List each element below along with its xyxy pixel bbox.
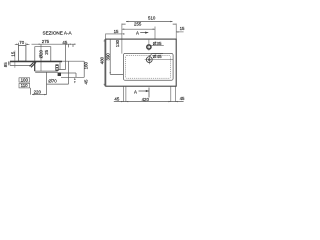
- svg-text:390: 390: [105, 53, 110, 61]
- bottom dim line: [114, 101, 184, 102]
- svg-text:Ø35: Ø35: [153, 41, 162, 46]
- dim 255 line: [122, 29, 155, 30]
- hidden inset rect: [125, 56, 170, 79]
- svg-text:45: 45: [83, 79, 88, 84]
- ext x30.6: [30, 88, 32, 95]
- svg-text:510: 510: [148, 15, 156, 20]
- below-deck verticals: [59, 44, 66, 69]
- tap hole circle: [147, 40, 151, 51]
- svg-text:110: 110: [21, 83, 29, 88]
- svg-text:480: 480: [100, 56, 105, 64]
- boxed dim 110: [19, 83, 30, 88]
- ext right x176.2: [175, 24, 177, 40]
- bottom ext lines: [123, 86, 175, 102]
- dim 390 line: [110, 39, 124, 74]
- ext tick x41: [40, 44, 42, 71]
- basin front wall: [34, 62, 36, 71]
- dim 15 right arrow: [176, 31, 183, 32]
- svg-text:220: 220: [34, 90, 42, 95]
- outer rect: [106, 39, 177, 86]
- apron bottom: [10, 64, 30, 66]
- ext tick x73: [72, 44, 74, 47]
- svg-text:45: 45: [180, 96, 185, 101]
- svg-text:100: 100: [21, 77, 29, 82]
- overflow box: [35, 47, 51, 62]
- svg-text:255: 255: [134, 21, 142, 26]
- svg-text:15: 15: [180, 26, 185, 31]
- svg-text:70: 70: [19, 40, 24, 45]
- inner rect: [123, 53, 173, 80]
- bottom line: [61, 76, 84, 78]
- svg-text:25: 25: [44, 49, 49, 54]
- svg-text:Ø20: Ø20: [38, 50, 43, 59]
- section A bottom: [134, 88, 149, 98]
- back edge: [83, 61, 85, 77]
- svg-text:15: 15: [114, 29, 119, 34]
- ext tick x68.5: [68, 44, 70, 47]
- under surface: [61, 72, 76, 74]
- svg-text:130: 130: [115, 39, 120, 47]
- dim 85 line: [8, 61, 9, 65]
- O70 leader vertical: [46, 72, 48, 94]
- drain centerline: [145, 59, 173, 61]
- drain circle: [146, 55, 152, 64]
- ext x155: [154, 27, 156, 40]
- drain stub: [58, 73, 61, 77]
- O45 label: [150, 54, 163, 59]
- left apron edge: [9, 61, 11, 65]
- dim 15 line: [14, 51, 16, 68]
- tap hatch: [30, 62, 36, 67]
- svg-text:Ø45: Ø45: [153, 54, 162, 59]
- deck top thin: [10, 60, 84, 62]
- dim 510 line: [122, 21, 176, 24]
- svg-text:A: A: [136, 30, 139, 35]
- back step: [75, 73, 77, 77]
- section A top: [136, 30, 148, 35]
- O70 shelf: [47, 83, 69, 85]
- tap rectangle: [18, 46, 26, 62]
- dim 220 line: [32, 94, 47, 95]
- overflow ladder: [55, 64, 58, 71]
- ext left x121.9: [121, 24, 123, 54]
- arrows stack: [74, 78, 76, 84]
- svg-text:85: 85: [3, 62, 8, 67]
- boxed dim 100: [19, 77, 30, 82]
- svg-text:A: A: [134, 89, 137, 94]
- O35 label: [151, 41, 164, 46]
- svg-text:420: 420: [142, 97, 150, 102]
- dim 15 left line: [106, 34, 122, 40]
- deck top thick: [10, 61, 62, 63]
- svg-text:275: 275: [42, 39, 50, 44]
- svg-text:Ø70: Ø70: [48, 78, 57, 83]
- basin bottom double: [35, 71, 58, 72]
- svg-text:45: 45: [114, 96, 119, 101]
- svg-text:160: 160: [84, 62, 89, 70]
- svg-text:SEZIONE A-A: SEZIONE A-A: [43, 31, 73, 36]
- dim 480 line: [104, 39, 105, 86]
- top dim line: [32, 44, 76, 45]
- dim 70 ticks and arrows: [15, 43, 30, 46]
- leader vertical x68.5: [68, 61, 70, 84]
